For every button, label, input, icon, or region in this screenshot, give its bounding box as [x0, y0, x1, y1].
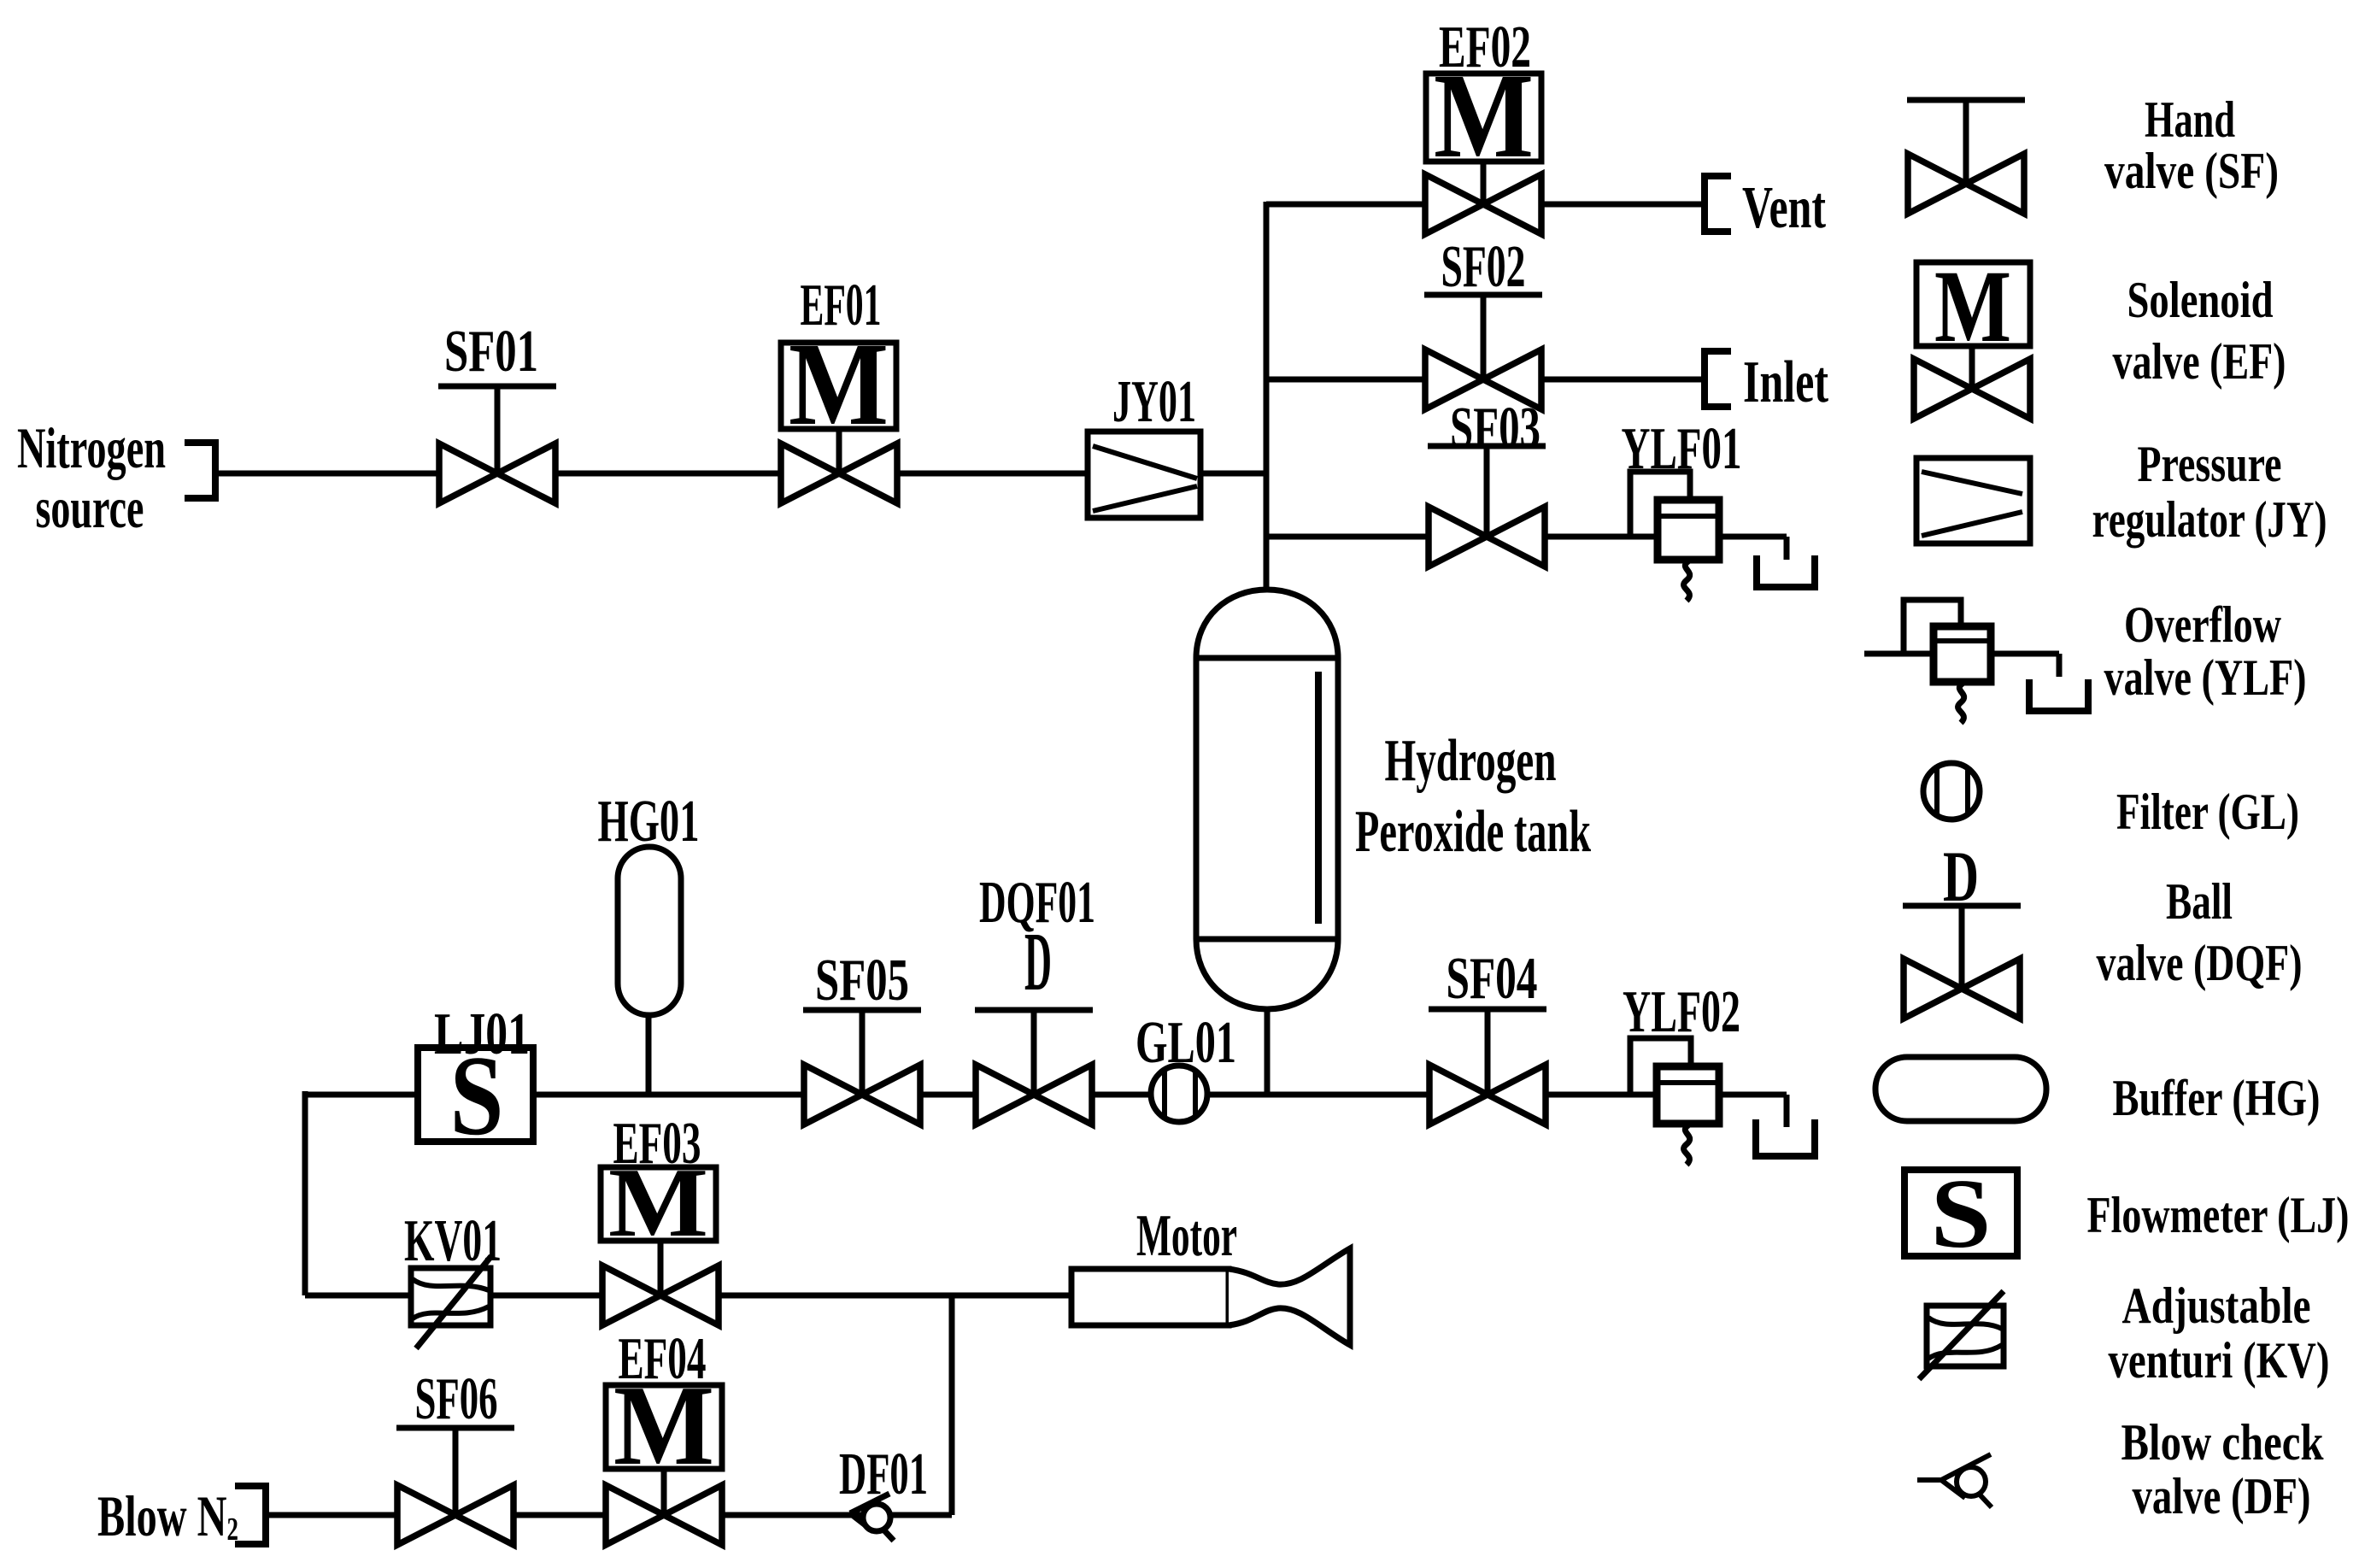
svg-text:regulator (JY): regulator (JY): [2092, 491, 2327, 548]
svg-text:Buffer (HG): Buffer (HG): [2113, 1070, 2321, 1126]
svg-text:Peroxide tank: Peroxide tank: [1355, 799, 1591, 865]
svg-text:valve (EF): valve (EF): [2113, 333, 2286, 390]
svg-text:EF04: EF04: [619, 1326, 707, 1392]
svg-text:source: source: [36, 475, 144, 540]
svg-text:EF02: EF02: [1439, 15, 1531, 80]
svg-text:Ball: Ball: [2166, 873, 2233, 930]
svg-text:Hand: Hand: [2145, 91, 2235, 148]
svg-text:S: S: [1931, 1160, 1992, 1269]
svg-text:valve (SF): valve (SF): [2104, 143, 2279, 199]
svg-text:YLF02: YLF02: [1623, 979, 1740, 1045]
svg-text:Motor: Motor: [1136, 1203, 1237, 1269]
svg-text:DF01: DF01: [839, 1442, 928, 1507]
svg-text:SF03: SF03: [1450, 396, 1540, 461]
svg-text:SF04: SF04: [1447, 946, 1538, 1012]
svg-text:Blow N2: Blow N2: [97, 1483, 238, 1548]
svg-text:DQF01: DQF01: [979, 870, 1095, 936]
svg-text:M: M: [789, 319, 889, 450]
svg-text:EF01: EF01: [801, 273, 882, 338]
svg-text:M: M: [1934, 250, 2011, 364]
svg-text:venturi (KV): venturi (KV): [2109, 1332, 2330, 1389]
svg-text:Flowmeter (LJ): Flowmeter (LJ): [2087, 1187, 2350, 1243]
svg-text:Solenoid: Solenoid: [2127, 272, 2274, 328]
svg-text:GL01: GL01: [1136, 1010, 1236, 1076]
svg-text:SF01: SF01: [444, 319, 538, 385]
svg-text:valve (DQF): valve (DQF): [2097, 935, 2303, 991]
svg-text:KV01: KV01: [404, 1208, 502, 1274]
svg-text:Pressure: Pressure: [2138, 436, 2282, 492]
svg-text:Overflow: Overflow: [2124, 596, 2282, 653]
svg-text:Nitrogen: Nitrogen: [17, 415, 166, 480]
svg-text:Vent: Vent: [1742, 175, 1826, 241]
svg-text:JY01: JY01: [1112, 369, 1196, 435]
svg-text:valve (DF): valve (DF): [2133, 1468, 2311, 1524]
svg-text:HG01: HG01: [598, 789, 700, 854]
svg-text:D: D: [1943, 837, 1979, 917]
svg-text:YLF01: YLF01: [1622, 416, 1742, 482]
svg-text:SF02: SF02: [1441, 234, 1526, 300]
svg-text:Adjustable: Adjustable: [2122, 1277, 2311, 1334]
svg-text:valve (YLF): valve (YLF): [2104, 649, 2307, 706]
svg-text:SF06: SF06: [415, 1366, 498, 1432]
svg-text:SF05: SF05: [815, 948, 909, 1013]
svg-text:Inlet: Inlet: [1743, 349, 1828, 415]
svg-text:Filter (GL): Filter (GL): [2116, 784, 2299, 840]
svg-text:Blow check: Blow check: [2121, 1414, 2325, 1471]
svg-text:EF03: EF03: [613, 1111, 701, 1177]
svg-text:LJ01: LJ01: [434, 1001, 530, 1067]
svg-text:Hydrogen: Hydrogen: [1385, 728, 1557, 794]
